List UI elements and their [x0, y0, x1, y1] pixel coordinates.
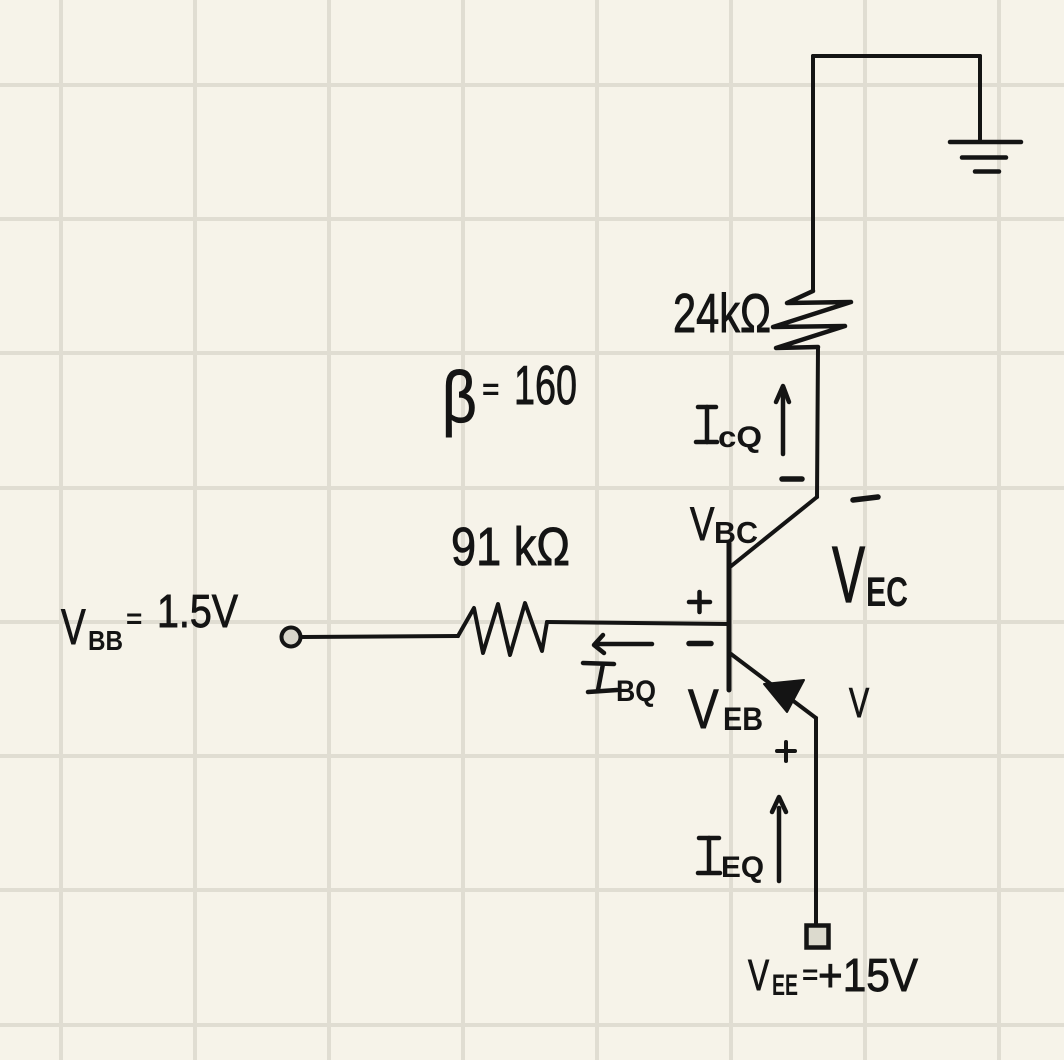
- resistor R1 24k zigzag: [773, 291, 851, 348]
- wire VBB to resistor: [302, 636, 458, 637]
- svg-text:V: V: [849, 679, 870, 726]
- arrow ICQ: [776, 386, 789, 454]
- svg-text:24kΩ: 24kΩ: [673, 282, 771, 344]
- wire base horizontal: [547, 622, 729, 624]
- svg-text:V: V: [688, 678, 719, 740]
- svg-text:EQ: EQ: [721, 851, 764, 884]
- wire top horizontal: [813, 54, 980, 58]
- wire emitter vertical: [814, 718, 818, 925]
- label IEQ: [698, 838, 720, 873]
- node VEE terminal square: [807, 926, 829, 948]
- svg-text:EC: EC: [866, 568, 908, 615]
- svg-text:BQ: BQ: [616, 675, 656, 708]
- resistor R2 91k zigzag: [458, 603, 547, 655]
- label VEB: [688, 678, 763, 740]
- arrow IEQ: [772, 797, 786, 881]
- svg-text:1.5V: 1.5V: [157, 585, 238, 637]
- svg-text:V: V: [61, 600, 86, 656]
- wire collector vertical: [817, 347, 818, 497]
- label IBQ: [583, 663, 617, 692]
- svg-text:EE: EE: [772, 969, 798, 1002]
- label VBC: [690, 498, 758, 550]
- transistor Q1 emitter diagonal: [731, 654, 816, 718]
- label minus VEC top: [853, 497, 878, 500]
- svg-text:BB: BB: [88, 625, 123, 656]
- svg-text:cQ: cQ: [718, 421, 762, 454]
- label plus above IEQ: [777, 742, 795, 761]
- label beta = 160: [442, 354, 577, 438]
- label VEE = +15V: [748, 949, 918, 1002]
- node VBB terminal circle: [282, 628, 301, 647]
- label plus at base: [689, 592, 710, 612]
- label minus near collector: [782, 476, 802, 482]
- arrow IBQ: [594, 635, 652, 653]
- svg-text:160: 160: [514, 354, 577, 416]
- svg-text:V: V: [748, 951, 769, 1000]
- svg-text:=: =: [802, 959, 818, 990]
- svg-text:+15V: +15V: [818, 949, 918, 1001]
- svg-text:91 kΩ: 91 kΩ: [451, 517, 570, 577]
- label minus below base wire: [689, 641, 711, 647]
- svg-text:V: V: [832, 531, 866, 620]
- svg-text:β: β: [442, 358, 477, 438]
- wire left vertical to R24k: [811, 56, 815, 291]
- wire right vertical to ground: [978, 56, 982, 142]
- svg-text:BC: BC: [714, 515, 758, 550]
- svg-text:=: =: [126, 603, 142, 634]
- ground: [950, 142, 1021, 172]
- label VBB = 1.5V: [61, 585, 238, 656]
- transistor Q1 base bar: [727, 543, 732, 690]
- transistor Q1 collector diagonal: [730, 497, 817, 567]
- label VEC: [832, 531, 908, 620]
- label ICQ: [696, 407, 717, 442]
- svg-text:=: =: [482, 373, 500, 406]
- svg-text:V: V: [690, 498, 714, 550]
- svg-text:EB: EB: [723, 701, 763, 737]
- transistor Q1 emitter arrowhead (PNP): [764, 680, 804, 712]
